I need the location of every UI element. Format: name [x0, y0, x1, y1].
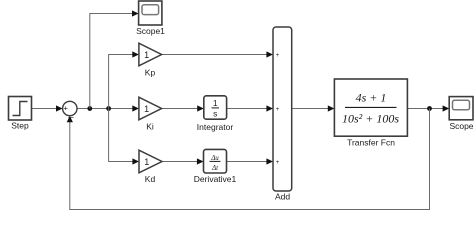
- wire Integrator to Add: [227, 105, 273, 111]
- svg-text:Δu: Δu: [210, 154, 219, 162]
- svg-text:Scope1: Scope1: [136, 26, 165, 36]
- wire Kp to Add: [162, 51, 273, 57]
- svg-text:Derivative1: Derivative1: [194, 174, 237, 184]
- adder block Add: [273, 27, 292, 202]
- gain Kd: [139, 150, 162, 184]
- wire Kd to Derivative1: [162, 158, 204, 164]
- svg-text:Transfer Fcn: Transfer Fcn: [347, 138, 395, 148]
- wire Add to Transfer Fcn: [292, 105, 335, 111]
- svg-text:10s² + 100s: 10s² + 100s: [342, 112, 399, 126]
- wire branch down to Kd gain: [109, 109, 139, 165]
- svg-text:1: 1: [144, 157, 149, 167]
- wire Transfer Fcn to Scope: [407, 105, 449, 111]
- wire branch up to Scope1: [90, 10, 139, 108]
- svg-text:_: _: [67, 108, 74, 118]
- svg-text:+: +: [276, 107, 280, 113]
- transfer function block: [334, 79, 407, 148]
- svg-text:Kp: Kp: [145, 67, 156, 77]
- svg-text:1: 1: [144, 50, 149, 60]
- svg-text:+: +: [276, 160, 280, 166]
- svg-text:Integrator: Integrator: [197, 122, 234, 132]
- junction node B: [106, 106, 111, 111]
- gain Ki: [139, 97, 162, 131]
- svg-text:Ki: Ki: [146, 121, 154, 131]
- scope sink Scope1: [136, 1, 165, 36]
- svg-text:Δt: Δt: [211, 164, 219, 172]
- junction node C: [427, 106, 432, 111]
- junction node A: [87, 106, 92, 111]
- svg-text:1: 1: [144, 104, 149, 114]
- svg-text:s: s: [213, 109, 217, 119]
- svg-text:Step: Step: [11, 121, 29, 131]
- svg-text:+: +: [276, 53, 280, 59]
- svg-text:Scope: Scope: [449, 121, 473, 131]
- integrator block 1/s: [197, 96, 234, 132]
- wire Step to Sum: [32, 105, 63, 111]
- svg-text:4s + 1: 4s + 1: [356, 91, 387, 105]
- wire Ki to Integrator: [162, 105, 204, 111]
- wire Derivative1 to Add: [227, 158, 274, 164]
- scope sink Scope: [449, 97, 474, 131]
- wire feedback loop: [67, 109, 430, 210]
- svg-text:Add: Add: [275, 192, 290, 202]
- step source Step: [9, 97, 32, 131]
- derivative block Derivative1: [194, 149, 237, 183]
- gain Kp: [139, 43, 162, 77]
- svg-text:1: 1: [213, 98, 218, 108]
- svg-text:Kd: Kd: [145, 174, 156, 184]
- wire branch up to Kp gain: [109, 51, 139, 108]
- sum junction: [63, 101, 77, 117]
- wire Sum output to Ki gain: [77, 105, 139, 111]
